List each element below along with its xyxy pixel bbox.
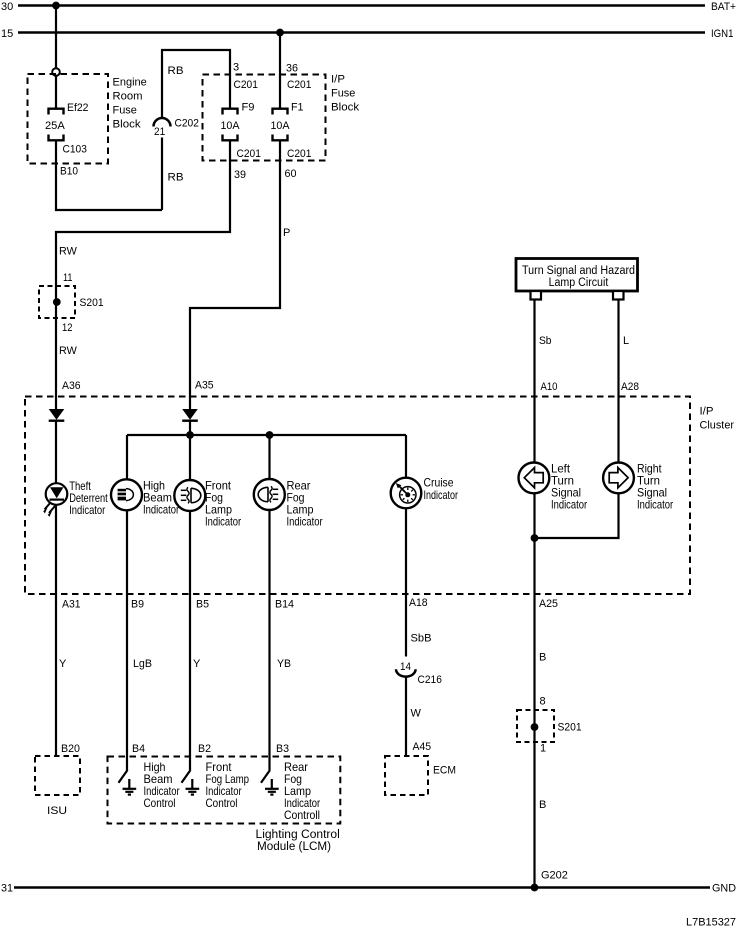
- svg-text:60: 60: [285, 168, 297, 180]
- svg-text:14: 14: [400, 661, 411, 673]
- theft deterrent indicator LED: [43, 483, 67, 517]
- fuse F1 10A: [273, 109, 288, 141]
- fuse F9 10A: [223, 109, 238, 141]
- wire S201 to G202 ground: [533, 742, 535, 888]
- svg-text:Indicator: Indicator: [287, 515, 323, 529]
- svg-text:10A: 10A: [271, 120, 291, 132]
- svg-text:Indicator: Indicator: [424, 488, 459, 502]
- svg-text:Indicator: Indicator: [143, 503, 179, 517]
- high beam indicator lamp: [111, 479, 142, 510]
- svg-text:C216: C216: [418, 674, 442, 686]
- svg-text:C103: C103: [63, 144, 87, 156]
- svg-text:Cluster: Cluster: [700, 420, 735, 432]
- svg-text:C201: C201: [287, 79, 311, 91]
- svg-text:Y: Y: [193, 658, 201, 670]
- svg-text:Block: Block: [331, 102, 360, 114]
- svg-text:B2: B2: [198, 743, 211, 755]
- svg-text:Module (LCM): Module (LCM): [257, 839, 331, 853]
- svg-text:Fuse: Fuse: [113, 105, 137, 117]
- svg-text:10A: 10A: [221, 120, 241, 132]
- svg-text:LgB: LgB: [133, 658, 152, 670]
- svg-text:Y: Y: [59, 658, 67, 670]
- svg-text:F9: F9: [242, 102, 255, 114]
- svg-text:RB: RB: [168, 65, 184, 77]
- wire theft LED to A31: [55, 505, 57, 594]
- junction bus30 / Ef22 feed: [52, 2, 60, 10]
- svg-text:A28: A28: [621, 381, 639, 393]
- I/P fuse block box: [203, 75, 326, 161]
- wire A25 B to S201: [533, 594, 535, 710]
- svg-text:YB: YB: [277, 658, 291, 670]
- svg-text:A25: A25: [539, 598, 558, 610]
- svg-text:Ef22: Ef22: [67, 102, 89, 114]
- svg-text:Controll: Controll: [284, 808, 320, 822]
- svg-text:B9: B9: [131, 599, 144, 611]
- svg-text:15: 15: [1, 28, 13, 40]
- svg-text:Turn Signal and Hazard: Turn Signal and Hazard: [522, 265, 635, 277]
- svg-text:C202: C202: [175, 118, 199, 130]
- connector tab left: [531, 291, 542, 300]
- wire C216 to ECM A45: [405, 677, 407, 756]
- svg-text:C201: C201: [287, 148, 311, 160]
- svg-text:A35: A35: [195, 380, 214, 392]
- svg-text:RW: RW: [59, 246, 77, 258]
- wire to high beam indicator: [126, 435, 128, 480]
- svg-text:W: W: [411, 708, 422, 720]
- svg-text:RW: RW: [59, 345, 77, 357]
- wire A18 SbB to C216: [405, 594, 407, 657]
- wire Ef22 out B10 down and right to C202: [56, 140, 162, 210]
- wire L to right turn indicator: [617, 300, 619, 464]
- wire diode A35 through junction to front fog lamp: [189, 421, 191, 481]
- svg-text:31: 31: [1, 883, 13, 895]
- wire bus15 to fuse F1: [279, 33, 281, 108]
- svg-text:C201: C201: [234, 79, 258, 91]
- svg-text:A18: A18: [409, 597, 428, 609]
- svg-text:A45: A45: [413, 741, 432, 753]
- svg-text:Room: Room: [113, 91, 143, 103]
- junction at A35 column: [186, 431, 194, 439]
- svg-text:F1: F1: [291, 102, 304, 114]
- wire diode to theft LED: [55, 421, 57, 484]
- svg-text:GND: GND: [712, 883, 736, 895]
- wire right turn joins left: [535, 493, 619, 538]
- svg-text:B: B: [539, 652, 546, 664]
- wire high beam to B9: [126, 510, 128, 594]
- wire Sb to left turn indicator: [533, 300, 535, 464]
- svg-text:Fuse: Fuse: [331, 88, 355, 100]
- front fog lamp indicator: [174, 480, 205, 511]
- svg-text:B14: B14: [275, 599, 294, 611]
- junction G202 on bus31: [531, 884, 539, 892]
- svg-text:A36: A36: [62, 380, 81, 392]
- wire B9 to LCM B4: [126, 594, 128, 770]
- connector C216 half-circle: [396, 669, 416, 676]
- switch+ground high beam control: [119, 770, 137, 795]
- wire connector to fuse Ef22: [55, 76, 57, 108]
- svg-text:C201: C201: [237, 148, 261, 160]
- svg-text:Engine: Engine: [113, 77, 147, 89]
- svg-text:L7B15327: L7B15327: [686, 917, 736, 929]
- lighting control module box: [108, 757, 341, 824]
- svg-text:12: 12: [62, 322, 73, 334]
- svg-text:Indicator: Indicator: [205, 515, 241, 529]
- wire bus 30 BAT+: [18, 4, 705, 7]
- connector C103 terminal circle: [52, 68, 60, 76]
- wire 60 output P down, left, to A35: [190, 140, 280, 409]
- switch+ground rear fog control: [261, 770, 279, 795]
- svg-text:Control: Control: [206, 796, 238, 810]
- fuse Ef22 25A: [49, 109, 64, 141]
- junction turn signal wires: [531, 534, 539, 542]
- svg-text:I/P: I/P: [700, 406, 714, 418]
- wire 39 output down, left, to RW column: [56, 140, 230, 286]
- ISU box: [35, 756, 80, 795]
- svg-text:G202: G202: [541, 870, 568, 882]
- svg-text:ECM: ECM: [433, 765, 456, 777]
- svg-text:B4: B4: [132, 743, 145, 755]
- cruise indicator gauge: [391, 478, 422, 509]
- I/P cluster box: [25, 397, 690, 595]
- left turn signal indicator: [519, 463, 550, 494]
- right turn signal indicator: [603, 463, 634, 494]
- svg-text:ISU: ISU: [47, 805, 67, 817]
- svg-text:SbB: SbB: [411, 633, 432, 645]
- svg-text:BAT+: BAT+: [711, 1, 736, 13]
- wire left turn down to A25: [533, 493, 535, 594]
- svg-text:S201: S201: [80, 297, 104, 309]
- junction bus15 / F1 feed: [276, 29, 284, 37]
- svg-text:30: 30: [1, 1, 13, 13]
- svg-text:1: 1: [540, 743, 546, 755]
- svg-text:Indicator: Indicator: [637, 498, 673, 512]
- connector tab right: [613, 291, 624, 300]
- wire S201 to A36 diode: [55, 318, 57, 410]
- wire through S201 lower: [533, 710, 535, 742]
- wire bus30 to C103 connector: [55, 6, 57, 69]
- svg-text:IGN1: IGN1: [711, 28, 734, 40]
- svg-text:Indicator: Indicator: [551, 498, 587, 512]
- svg-text:A31: A31: [62, 599, 81, 611]
- svg-text:3: 3: [233, 62, 239, 74]
- svg-text:B3: B3: [276, 743, 289, 755]
- svg-text:39: 39: [234, 169, 246, 181]
- wire rear fog to B14: [268, 510, 270, 594]
- wire to cruise indicator: [405, 435, 407, 478]
- splice S201 box: [39, 286, 75, 318]
- junction at rear fog column: [266, 431, 274, 439]
- svg-text:Sb: Sb: [539, 335, 552, 347]
- svg-text:Block: Block: [113, 119, 142, 131]
- turn signal and hazard lamp circuit box: [516, 259, 638, 292]
- svg-text:P: P: [283, 227, 290, 239]
- wire RB lower: [161, 138, 163, 211]
- wire through S201: [55, 286, 57, 318]
- svg-text:21: 21: [154, 126, 165, 138]
- splice S201 lower dot: [531, 723, 539, 731]
- splice S201 dot: [53, 298, 61, 306]
- svg-text:8: 8: [540, 696, 546, 708]
- wire B14 to LCM B3: [268, 594, 270, 770]
- svg-text:A10: A10: [541, 381, 558, 393]
- wire indicator feed bus: [127, 434, 406, 436]
- wire cruise to A18: [405, 508, 407, 594]
- diode A35: [182, 409, 198, 421]
- wire bus 31 GND: [14, 886, 710, 889]
- wire RB upper from C202 up and right to fuse F9: [162, 50, 230, 118]
- engine room fuse block box: [28, 74, 109, 164]
- connector C202 half-circle: [154, 118, 171, 127]
- svg-text:Indicator: Indicator: [69, 503, 105, 517]
- wire B5 to LCM B2: [189, 594, 191, 770]
- svg-text:B: B: [539, 799, 546, 811]
- svg-text:25A: 25A: [45, 120, 65, 132]
- svg-text:B10: B10: [60, 166, 78, 178]
- svg-text:Control: Control: [144, 796, 176, 810]
- svg-text:S201: S201: [558, 722, 582, 734]
- svg-text:I/P: I/P: [331, 74, 345, 86]
- ECM box: [385, 756, 428, 795]
- svg-text:36: 36: [286, 63, 298, 75]
- wire front fog to B5: [189, 511, 191, 594]
- wire bus 15 IGN1: [18, 31, 705, 34]
- splice S201 lower box: [517, 710, 554, 742]
- svg-text:B20: B20: [61, 743, 80, 755]
- rear fog lamp indicator: [254, 479, 285, 510]
- wire to rear fog indicator: [268, 435, 270, 480]
- svg-text:RB: RB: [168, 172, 184, 184]
- svg-text:Lamp Circuit: Lamp Circuit: [549, 277, 609, 289]
- svg-text:B5: B5: [196, 599, 209, 611]
- svg-text:L: L: [623, 335, 629, 347]
- diode A36: [49, 409, 65, 421]
- wire A31 to ISU B20: [55, 594, 57, 756]
- switch+ground front fog control: [182, 770, 200, 795]
- svg-text:11: 11: [63, 272, 73, 284]
